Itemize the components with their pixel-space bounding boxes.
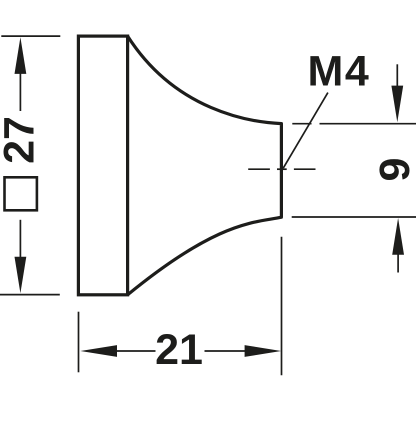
dim 21 right extension line [281,237,283,375]
svg-text:9: 9 [371,158,416,182]
dim 27 bottom extension line [0,294,60,296]
dim 9 down arrow [391,64,403,122]
svg-text:21: 21 [155,326,203,374]
dim 27 top extension line [1,35,60,37]
center line dash 2 [277,168,287,170]
dim 21 left arrow [80,345,155,357]
svg-text:27: 27 [0,116,44,164]
dim 21 left extension line [78,312,80,373]
M4 leader line [283,93,328,169]
knob base plate outline [78,36,127,295]
square symbol [5,177,37,210]
dim 27 down arrow [15,220,27,293]
center line dash 1 [248,168,270,170]
svg-text:M4: M4 [308,47,371,95]
dim 9 bottom extension line [292,216,416,218]
center line dash 3 [294,168,316,170]
dim 9 top extension line [292,123,416,125]
dim 21 right arrow [205,345,282,357]
dim 9 up arrow [392,218,404,273]
dim 27 up arrow [15,37,27,111]
knob flared neck outline [128,36,282,295]
